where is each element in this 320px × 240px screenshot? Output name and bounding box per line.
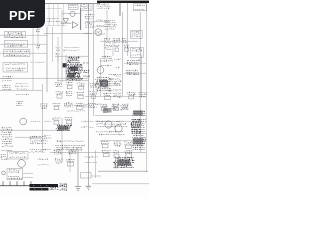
node cluster N12 (0, 0, 1, 1)
ruler tick t5 (30, 181, 32, 186)
wire vertical v70b (69, 150, 71, 172)
wire horizontal h115 (95, 115, 146, 117)
ruler tick t1 (2, 181, 4, 186)
node cluster N18 (66, 105, 87, 112)
label AC-IN (2, 76, 13, 81)
transistor Q102 leads (96, 31, 102, 35)
wire horizontal h171 (98, 170, 148, 172)
wire vertical v58t (57, 4, 59, 27)
resistor R103 text (97, 3, 110, 9)
wire horizontal h13 (62, 12, 80, 14)
node cluster N13 (63, 47, 80, 51)
capacitor C401 box (81, 173, 92, 179)
wire horizontal h53l (0, 52, 47, 54)
relay RY1 box (3, 63, 28, 73)
bottom row parts (101, 141, 145, 149)
wire top border rail (45, 2, 100, 4)
wire vertical v38 (37, 25, 39, 50)
resistor R101 box (69, 4, 79, 9)
wire regulator v66 (65, 55, 67, 81)
dark spot core (118, 160, 131, 166)
inductor L1 box (3, 50, 30, 56)
IC U301 cluster (30, 136, 48, 153)
wire bottom ruler (0, 185, 34, 187)
node cluster N14 (84, 32, 95, 34)
capacitor C231 text (131, 48, 142, 55)
wire horizontal h33 (44, 33, 92, 35)
wire horizontal h25 (45, 25, 66, 27)
capacitor C312 blob (133, 138, 143, 145)
wire VR1 arrow1 (23, 172, 33, 174)
label column mid right (101, 56, 113, 66)
capacitor C150 small part (40, 104, 48, 109)
wire vertical v140 (139, 12, 141, 152)
wire horizontal h21 (85, 21, 110, 23)
wire vertical v53t (53, 4, 55, 27)
connector pins left bottom (1, 154, 7, 160)
transistor Q210 cluster (95, 77, 112, 92)
wire horizontal h41 (100, 40, 138, 42)
IC U201 blob2 (68, 73, 75, 78)
wire horizontal h96r (85, 95, 146, 97)
transistor Q311 body (115, 125, 122, 132)
marks left of stamp (59, 183, 67, 191)
IC U302 cluster (52, 118, 73, 125)
wire horizontal h73 arrow (124, 72, 146, 74)
diode row mid right b (105, 45, 130, 51)
label top-left of pin list (2, 85, 11, 90)
diode row mid right a (104, 38, 126, 44)
connector P2 pin list (1, 127, 14, 151)
wire faint bottom rule (92, 183, 149, 185)
transistor Q210 body (97, 67, 104, 74)
wire vertical v33 (32, 25, 34, 90)
ground symbol 1 (75, 187, 81, 191)
node cluster N15 (15, 83, 29, 95)
wire regulator v58 (57, 55, 59, 81)
transistor Q301 body (20, 118, 27, 125)
wire vertical v95b (95, 150, 97, 178)
capacitor C230 text (131, 31, 140, 36)
IC U302 core blob (58, 126, 69, 131)
wire horizontal h8 (46, 8, 62, 10)
marks between Q310 Q311 (96, 121, 128, 136)
ruler tick t2 (9, 181, 11, 186)
stamp percent mark (61, 184, 67, 189)
wire VR1 arrow2 (23, 176, 33, 178)
label T2 small (36, 45, 40, 48)
wire horizontal h140r (100, 140, 146, 142)
transistor Q201 body (68, 67, 74, 73)
wire horizontal h130 (0, 129, 62, 131)
label row under U302 (55, 140, 84, 151)
IC U201 spill right (83, 63, 89, 77)
node cluster N16 (0, 0, 1, 1)
node cluster N1 (47, 18, 62, 22)
node cluster N11 (85, 156, 98, 163)
fuse F1 text (6, 32, 24, 38)
wire C401 lead (91, 175, 101, 177)
node cluster N5 (83, 103, 99, 107)
wire vertical v107 (106, 10, 108, 40)
wire vertical v42 (41, 84, 43, 152)
resistor row R220 parts (56, 91, 98, 98)
wire vertical v120 dark (119, 3, 121, 17)
wire vertical center busF (93, 4, 95, 116)
label T1 small (36, 29, 40, 32)
relay RY1 text (5, 64, 26, 71)
IC U201 blob1 (70, 66, 78, 71)
wire vertical v104 (103, 40, 105, 58)
op-amp U102 triangle (72, 22, 78, 29)
IC U401 upper parts (54, 149, 78, 154)
transistor Q102 body (95, 29, 102, 36)
label T3 small (56, 48, 60, 55)
title stamp line1 (30, 184, 59, 187)
node cluster N2 (31, 61, 45, 63)
transistor Q401 body (18, 160, 26, 168)
wire vertical v62 (61, 10, 63, 82)
wire vertical v141 frame (140, 55, 142, 96)
wire vertical v100 (99, 58, 101, 96)
diode D305 blob (104, 108, 112, 113)
transformer symbol lower (126, 70, 139, 76)
wire horizontal h78 (0, 77, 88, 79)
diode D101 symbol (61, 19, 72, 24)
wire horizontal h90 (0, 89, 42, 91)
resistor network RN1 text (104, 20, 117, 29)
ruler tick t4 (23, 181, 25, 186)
zener dark cluster (131, 119, 142, 134)
wire vertical v63t (63, 4, 65, 27)
wire vertical v53 (52, 27, 54, 62)
IC U201 body (63, 63, 67, 67)
wire horizontal h152 (50, 152, 146, 154)
wire vertical v122 (121, 12, 123, 96)
diode row D220 parts (100, 104, 129, 111)
wire horizontal h121 (95, 120, 131, 122)
resistor row R230 parts (53, 102, 95, 110)
dark spot right bottom (113, 157, 134, 169)
wire horizontal h80 (57, 80, 88, 82)
transistor Q211 dark blob (100, 80, 109, 87)
node cluster N4 (114, 59, 121, 85)
connector J1 box (133, 4, 146, 11)
node cluster N7 (0, 0, 1, 1)
title stamp gap (30, 185, 54, 189)
title stamp tail (50, 187, 59, 190)
IC U401 lower parts (55, 158, 75, 166)
connector J1 text (135, 5, 145, 10)
transistor Q101 body (70, 11, 75, 16)
IC U201 dense wiring (66, 64, 83, 81)
wire horizontal h63 arrow (124, 62, 146, 64)
wire vertical v113 (112, 40, 114, 56)
IC U402 parts (102, 150, 132, 157)
capacitor C1 text (5, 43, 25, 47)
wire right border (145, 3, 147, 172)
wire vertical v62b (61, 118, 63, 162)
wire vertical v58 (57, 37, 59, 62)
ground symbol 2 (86, 186, 91, 190)
resistor R150 small part (16, 101, 23, 106)
node cluster N8 (44, 121, 52, 149)
wire vertical v127 (126, 3, 128, 56)
IC U101 pin text (85, 14, 95, 28)
capacitor C102 text (81, 5, 91, 9)
voltage regulator VR1 box (7, 169, 23, 180)
voltage regulator VR1 text (8, 169, 22, 179)
capacitor C230 box (131, 31, 143, 39)
capacitor column C310 (132, 111, 146, 150)
wire vertical v49 (48, 4, 50, 27)
wire vertical v47 (46, 27, 48, 92)
transistor Q202 body (74, 73, 80, 79)
resistor row R210 parts (55, 82, 98, 89)
relay K2 text (9, 152, 26, 158)
wire vertical v78b (77, 148, 79, 187)
wire horizontal h44l (0, 43, 47, 45)
diode row D301 parts (102, 105, 128, 113)
current transformer CT1 body (2, 171, 6, 175)
transistor Q211 body (101, 80, 108, 87)
wire top border rail thick right (97, 1, 149, 3)
wire horizontal h26r (95, 26, 110, 28)
capacitor C311 blob (133, 110, 143, 115)
title stamp line2 (30, 188, 49, 191)
node cluster N6 (0, 0, 1, 1)
resistor R101 text (69, 5, 77, 7)
transformer symbol upper (127, 59, 140, 65)
capacitor C102 box (81, 3, 93, 10)
wire vertical v80 dark (80, 8, 82, 30)
wire vertical center busE (87, 4, 89, 186)
node cluster N17 (31, 120, 41, 122)
wire horizontal h35l (0, 34, 47, 36)
wire horizontal h56 (55, 55, 88, 57)
relay K2 box (8, 152, 29, 160)
IC U302 dark block (56, 124, 72, 130)
capacitor C231 box (130, 48, 143, 58)
node cluster N10 (38, 158, 50, 165)
IC U201 label rows (67, 56, 80, 63)
node cluster N3 (96, 19, 104, 34)
ruler tick t3 (16, 181, 18, 186)
fuse F1 box (4, 32, 26, 38)
diode row D210 parts (103, 92, 147, 100)
inductor L1 text (4, 50, 28, 56)
transistor Q310 body (105, 121, 112, 128)
text right of Q211 (109, 74, 122, 90)
wire horizontal h137 (15, 136, 42, 138)
node cluster N9 (81, 121, 94, 128)
PDF badge (0, 0, 45, 28)
capacitor C1 box (4, 41, 28, 48)
